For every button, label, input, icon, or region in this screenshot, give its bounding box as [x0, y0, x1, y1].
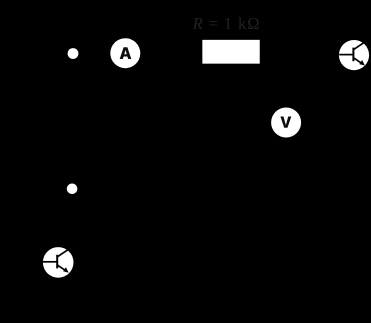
node junction dot 1 [68, 48, 79, 59]
wire voltmeter tap vertical [285, 53, 287, 108]
Q2 base bar [56, 255, 58, 269]
node junction dot 2 [67, 184, 78, 195]
svg-text:R = 1 kΩ: R = 1 kΩ [192, 14, 261, 33]
wire bottom rail [20, 296, 364, 298]
Q2 base lead [43, 261, 57, 263]
ammeter A [110, 38, 140, 68]
wire left rail vertical [20, 53, 73, 297]
voltmeter V [271, 108, 301, 138]
wire resistor to transistor Q1 base [261, 52, 340, 55]
transistor Q1 [339, 40, 369, 70]
label R = 1 kOhm [192, 14, 261, 33]
Q1 base lead [339, 54, 353, 56]
resistor R (box) [200, 38, 261, 66]
wire transistor Q1 emitter lead [365, 65, 368, 297]
wire transistor Q2 base lead [20, 261, 43, 263]
wire ammeter to resistor [140, 52, 200, 53]
Q1 base bar [352, 48, 354, 62]
Q2 collector [57, 247, 71, 257]
wire top rail left segment [20, 52, 111, 54]
Q2 emitter with arrow [57, 265, 66, 271]
Q1 collector [353, 40, 367, 50]
Q1 emitter with arrow [353, 58, 362, 64]
wire voltmeter to bottom rail [285, 137, 287, 297]
transistor Q2 [43, 247, 74, 278]
